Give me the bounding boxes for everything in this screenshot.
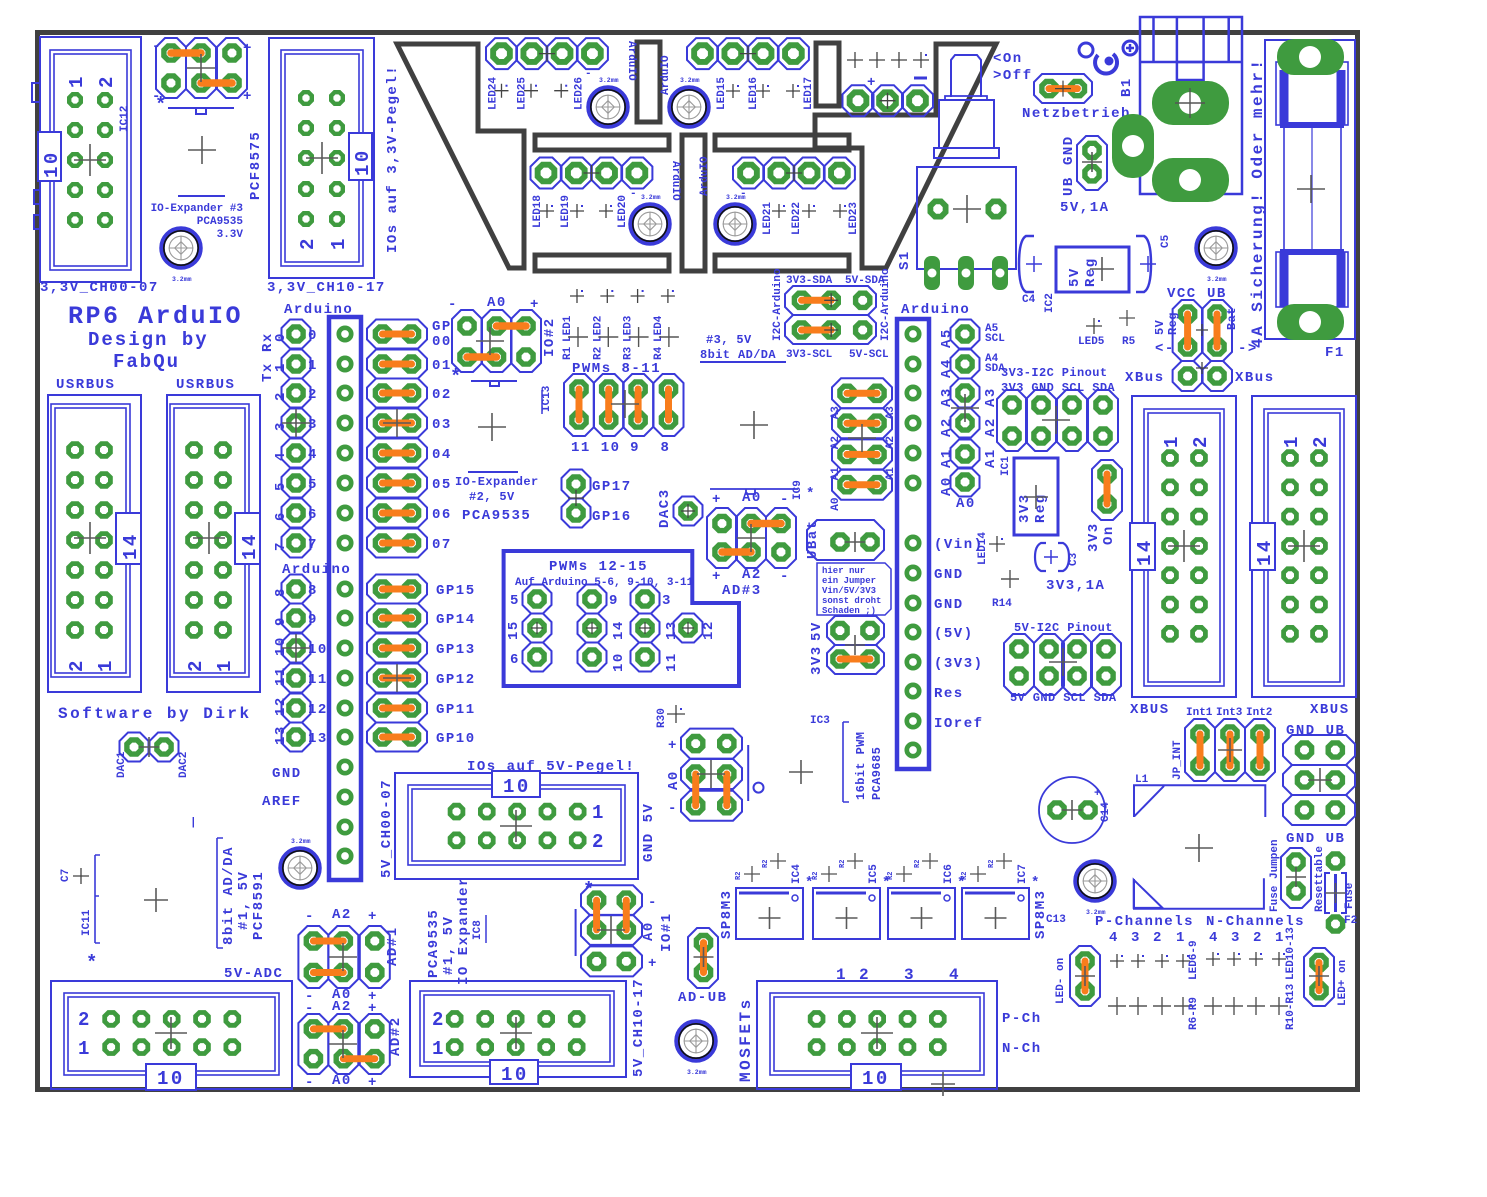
- pad DAC3: [657, 488, 703, 528]
- jumper Netzbetrieb: [1022, 74, 1131, 122]
- svg-text:Int1: Int1: [1186, 707, 1213, 719]
- svg-text:+: +: [243, 89, 253, 105]
- svg-text:3.2mm: 3.2mm: [291, 838, 311, 845]
- svg-text:N-Ch: N-Ch: [1002, 1041, 1042, 1057]
- svg-text:10: 10: [273, 636, 289, 656]
- connector 5V-ADC: [51, 981, 292, 1090]
- svg-text:10: 10: [862, 1068, 890, 1090]
- svg-text:LED1: LED1: [562, 315, 574, 342]
- Arduino shield header left strip: [329, 317, 361, 880]
- svg-text:2: 2: [1253, 930, 1263, 946]
- svg-text:3: 3: [904, 966, 916, 984]
- transistor box IC6: [887, 853, 967, 939]
- milled slot bar4: [715, 255, 849, 271]
- jumper block Arduino A3-A0: [830, 378, 897, 510]
- svg-text:Auf Arduino 5-6, 9-10, 3-11: Auf Arduino 5-6, 9-10, 3-11: [515, 577, 694, 589]
- jumper block I2C-Arduino: [772, 268, 892, 361]
- svg-text:A1: A1: [939, 448, 955, 468]
- svg-text:AD#2: AD#2: [388, 1016, 404, 1056]
- svg-text:#3, 5V: #3, 5V: [706, 333, 752, 347]
- svg-text:5V: 5V: [1153, 319, 1167, 335]
- svg-text:-: -: [648, 895, 658, 911]
- svg-text:4: 4: [308, 447, 318, 463]
- svg-text:R6-R9: R6-R9: [1188, 997, 1200, 1030]
- svg-text:>Off: >Off: [993, 68, 1033, 84]
- jumper JP12 block: [152, 38, 253, 116]
- cross bottom middle: [931, 1072, 955, 1096]
- svg-text:1: 1: [78, 1038, 92, 1060]
- mounting hole bottom middle: [677, 1022, 715, 1076]
- svg-text:IC9: IC9: [792, 480, 804, 500]
- jumpers JP_INT Int1 Int3 Int2: [1172, 707, 1275, 781]
- svg-text:A0: A0: [332, 1073, 352, 1089]
- svg-text:-: -: [630, 188, 637, 200]
- svg-text:4: 4: [1109, 930, 1119, 946]
- svg-text:A2: A2: [332, 907, 352, 923]
- svg-text:10: 10: [308, 642, 328, 658]
- svg-text:14: 14: [611, 620, 627, 640]
- svg-text:GND: GND: [934, 597, 964, 613]
- connector XBUS2: [1250, 396, 1356, 697]
- cross mid left: [478, 413, 506, 441]
- svg-text:5V_CH00-07: 5V_CH00-07: [379, 779, 395, 878]
- svg-text:Int2: Int2: [1246, 707, 1272, 719]
- svg-text:8: 8: [661, 440, 671, 456]
- svg-text:2: 2: [1310, 434, 1332, 448]
- svg-text:5V: 5V: [1067, 267, 1083, 287]
- svg-text:3: 3: [662, 593, 672, 609]
- svg-text:IO#2: IO#2: [542, 317, 558, 357]
- svg-text:5V-SCL: 5V-SCL: [849, 349, 889, 361]
- svg-text:1: 1: [432, 1038, 446, 1060]
- svg-text:R30: R30: [656, 708, 668, 728]
- svg-text:IC4: IC4: [791, 864, 803, 884]
- svg-text:4: 4: [949, 966, 961, 984]
- svg-text:LED22: LED22: [791, 202, 803, 235]
- svg-text:-: -: [305, 909, 315, 925]
- svg-text:A2: A2: [332, 999, 352, 1015]
- svg-text:A1: A1: [983, 448, 999, 468]
- LED pads LED15-17 group: [660, 38, 815, 110]
- svg-text:3.2mm: 3.2mm: [172, 276, 192, 283]
- svg-text:XBus: XBus: [1235, 370, 1275, 386]
- labels Arduino power pins: [934, 537, 984, 732]
- jumper block AD#2: [298, 999, 404, 1091]
- svg-text:1: 1: [1176, 930, 1186, 946]
- header Arduino analog pins A5-A0: [939, 320, 1005, 513]
- svg-text:+: +: [368, 909, 378, 925]
- svg-text:IC3: IC3: [810, 715, 830, 727]
- svg-text:SCL: SCL: [985, 333, 1005, 345]
- svg-text:IC13: IC13: [541, 385, 553, 412]
- jumper block A0-IO#2mid: [666, 729, 764, 821]
- svg-text:LED24: LED24: [487, 77, 499, 110]
- svg-text:LED23: LED23: [848, 202, 860, 235]
- svg-text:SP8M3: SP8M3: [1033, 889, 1049, 939]
- svg-text:*: *: [155, 94, 169, 116]
- svg-text:ArduIO: ArduIO: [699, 156, 711, 196]
- connector 5V_CH10-17: [410, 978, 647, 1086]
- svg-text:6: 6: [308, 507, 318, 523]
- jumper block AD#1: [298, 907, 401, 1005]
- svg-text:Bat: Bat: [1225, 307, 1239, 330]
- jumper 3V3 On: [1086, 460, 1122, 552]
- svg-text:9: 9: [308, 612, 318, 628]
- svg-text:LED2: LED2: [592, 316, 604, 342]
- svg-text:Schaden ;): Schaden ;): [822, 606, 876, 616]
- connector USRBUS2: [167, 395, 261, 692]
- connector USRBUS1: [48, 395, 142, 692]
- svg-text:A0: A0: [742, 490, 762, 506]
- svg-text:GP13: GP13: [436, 642, 476, 658]
- header Arduino digital pins 8-13: [273, 575, 328, 752]
- svg-text:2: 2: [185, 658, 207, 672]
- LED pads LED24-26 group: [486, 38, 637, 110]
- pads DAC1 DAC2: [116, 733, 190, 779]
- svg-text:IO Expander: IO Expander: [456, 876, 472, 985]
- svg-text:PCA9535: PCA9535: [462, 508, 531, 524]
- svg-text:A0: A0: [830, 497, 842, 510]
- svg-text:PCA9535: PCA9535: [426, 909, 442, 978]
- svg-text:<-: <-: [1155, 341, 1175, 357]
- svg-text:-: -: [305, 1075, 315, 1091]
- svg-text:9: 9: [630, 440, 640, 456]
- connector 3,3V_CH00-07: [38, 37, 159, 296]
- svg-text:IC6: IC6: [943, 864, 955, 884]
- svg-text:LED4: LED4: [653, 315, 665, 342]
- svg-text:PCF8591: PCF8591: [251, 871, 267, 940]
- svg-text:9: 9: [273, 616, 289, 626]
- svg-text:R2: R2: [762, 860, 770, 868]
- svg-text:4A Sicherung! Oder mehr!: 4A Sicherung! Oder mehr!: [1249, 58, 1267, 348]
- svg-text:GND 5V: GND 5V: [641, 803, 657, 862]
- svg-text:1: 1: [1161, 434, 1183, 448]
- svg-text:10: 10: [501, 1064, 529, 1086]
- svg-text:LED16: LED16: [748, 77, 760, 110]
- milled slot bar2: [535, 255, 669, 271]
- svg-text:PCA9685: PCA9685: [870, 747, 884, 800]
- svg-text:10: 10: [157, 1068, 185, 1090]
- svg-text:2: 2: [308, 387, 318, 403]
- mounting hole top a: [589, 77, 627, 126]
- transistor box IC4: [735, 853, 815, 939]
- svg-text:GP14: GP14: [436, 612, 476, 628]
- svg-text:1: 1: [66, 74, 88, 88]
- IC2 5V regulator box: [1044, 247, 1129, 313]
- svg-text:3.2mm: 3.2mm: [641, 194, 661, 201]
- svg-text:A4: A4: [939, 358, 955, 378]
- svg-text:IOref: IOref: [934, 716, 984, 732]
- jumper block A0 IO#1: [576, 879, 675, 976]
- board edge notch: [32, 83, 40, 229]
- jumper netz +- pads: [843, 75, 934, 116]
- svg-text:3.2mm: 3.2mm: [687, 1069, 707, 1076]
- svg-text:IC7: IC7: [1017, 864, 1029, 884]
- svg-text:R14: R14: [992, 598, 1012, 610]
- svg-text:7: 7: [273, 541, 289, 551]
- svg-text:LED21: LED21: [762, 202, 774, 235]
- svg-text:B1: B1: [1119, 77, 1135, 97]
- svg-text:DAC2: DAC2: [178, 752, 190, 778]
- svg-text:14: 14: [120, 532, 142, 560]
- milled cutout right wing: [815, 44, 996, 268]
- jumper UBat: [805, 519, 884, 560]
- svg-text:1: 1: [95, 658, 117, 672]
- jumper GP01: [367, 350, 452, 379]
- svg-text:I2C-Arduino: I2C-Arduino: [880, 268, 892, 341]
- svg-text:1: 1: [1275, 930, 1285, 946]
- svg-text:Arduino: Arduino: [901, 302, 970, 318]
- svg-text:Software by Dirk: Software by Dirk: [58, 705, 252, 723]
- jumper GP12: [367, 664, 476, 693]
- svg-text:-: -: [780, 492, 790, 508]
- svg-text:6: 6: [273, 511, 289, 521]
- svg-text:R2: R2: [988, 860, 996, 868]
- pinout 5V-I2C: [1004, 621, 1121, 705]
- svg-text:+: +: [243, 41, 253, 57]
- svg-text:2: 2: [1153, 930, 1163, 946]
- svg-text:13: 13: [273, 725, 289, 745]
- svg-text:LED20: LED20: [617, 195, 629, 228]
- svg-text:10: 10: [41, 150, 63, 178]
- connector MOSFETs: [737, 966, 1042, 1090]
- Arduino shield header right strip: [897, 319, 929, 769]
- svg-text:10: 10: [503, 776, 531, 798]
- svg-text:GP17: GP17: [592, 479, 632, 495]
- svg-text:2: 2: [297, 236, 319, 250]
- svg-text:LED- on: LED- on: [1055, 958, 1067, 1004]
- svg-text:LED+ on: LED+ on: [1337, 960, 1349, 1006]
- svg-text:GP12: GP12: [436, 672, 476, 688]
- svg-text:6: 6: [510, 652, 520, 668]
- svg-text:IC1: IC1: [1000, 456, 1012, 476]
- svg-text:IO#1: IO#1: [659, 912, 675, 952]
- svg-text:Fuse: Fuse: [1344, 882, 1356, 909]
- svg-text:R4: R4: [653, 346, 665, 360]
- mounting hole mid b: [716, 194, 754, 243]
- svg-text:07: 07: [432, 537, 452, 553]
- svg-text:16bit PWM: 16bit PWM: [854, 732, 868, 800]
- svg-text:PWMs 12-15: PWMs 12-15: [549, 559, 648, 575]
- connector XBUS1: [1130, 396, 1236, 697]
- svg-text:R2: R2: [592, 347, 604, 360]
- cross PWM811: [611, 390, 639, 418]
- svg-text:GND UB: GND UB: [1286, 723, 1345, 739]
- pads UB GND power out: [1060, 135, 1110, 216]
- svg-text:LED10-13: LED10-13: [1285, 927, 1297, 980]
- svg-text:+: +: [712, 492, 722, 508]
- svg-text:XBUS: XBUS: [1130, 702, 1170, 718]
- svg-text:GND: GND: [272, 766, 302, 782]
- capacitor C2: [1035, 543, 1080, 571]
- svg-text:GP10: GP10: [436, 731, 476, 747]
- cross between top connectors: [188, 136, 216, 164]
- svg-text:FabQu: FabQu: [113, 351, 180, 373]
- svg-text:R3: R3: [623, 346, 635, 360]
- svg-text:AD-UB: AD-UB: [678, 990, 728, 1006]
- svg-text:3.3V: 3.3V: [217, 229, 244, 241]
- svg-text:1: 1: [836, 966, 848, 984]
- svg-text:(5V): (5V): [934, 626, 974, 642]
- milled cutout left wing: [397, 44, 524, 268]
- svg-text:IC12: IC12: [119, 106, 131, 132]
- svg-text:#1, 5V: #1, 5V: [236, 871, 252, 930]
- milled slot top right: [816, 43, 839, 106]
- svg-text:USRBUS: USRBUS: [56, 377, 115, 393]
- mounting hole bottom left: [281, 838, 319, 887]
- svg-text:2: 2: [273, 391, 289, 401]
- pinout 3V3-I2C: [997, 366, 1118, 451]
- svg-text:5V: 5V: [809, 621, 825, 641]
- capacitor C7: [60, 855, 168, 974]
- svg-text:sonst droht: sonst droht: [822, 596, 881, 606]
- svg-text:SP8M3: SP8M3: [719, 889, 735, 939]
- svg-text:-: -: [668, 801, 678, 817]
- svg-text:*: *: [1031, 875, 1041, 891]
- svg-text:USRBUS: USRBUS: [176, 377, 235, 393]
- svg-text:3.2mm: 3.2mm: [726, 194, 746, 201]
- svg-text:LED17: LED17: [803, 77, 815, 110]
- svg-text:7: 7: [308, 537, 318, 553]
- svg-text:3V3: 3V3: [809, 645, 825, 675]
- LED5 R5: [1086, 318, 1102, 334]
- milled slot bar1: [535, 135, 669, 150]
- svg-text:XBus: XBus: [1125, 370, 1165, 386]
- svg-text:Int3: Int3: [1216, 707, 1243, 719]
- milled slot middle vertical: [682, 135, 705, 271]
- svg-text:AD#3: AD#3: [722, 583, 762, 599]
- LED6-9 crosses: [1110, 940, 1200, 980]
- svg-text:#2, 5V: #2, 5V: [469, 490, 515, 504]
- cross GP03: [383, 409, 411, 437]
- svg-text:*: *: [806, 486, 816, 502]
- LED1-4 resistor crosses: [562, 289, 679, 360]
- jumper GP06: [367, 499, 452, 528]
- svg-text:P-Channels: P-Channels: [1095, 914, 1194, 930]
- jumper LED+ on: [1304, 948, 1349, 1006]
- svg-text:14: 14: [1254, 538, 1276, 566]
- svg-text:3: 3: [308, 417, 318, 433]
- warning text box: [817, 563, 891, 616]
- PWMs 12-15 box: [504, 551, 739, 686]
- svg-text:R2: R2: [735, 872, 743, 880]
- jumper GP13: [367, 634, 476, 663]
- svg-text:-: -: [152, 39, 162, 55]
- svg-text:4: 4: [1209, 930, 1219, 946]
- LED14: [989, 536, 1005, 552]
- svg-text:2: 2: [1190, 434, 1212, 448]
- svg-text:C5: C5: [1160, 234, 1172, 248]
- jumper PWM 11: [564, 374, 594, 456]
- svg-text:ein Jumper: ein Jumper: [822, 576, 876, 586]
- svg-text:F2: F2: [1344, 915, 1357, 927]
- svg-text:3V3 GND SCL SDA: 3V3 GND SCL SDA: [1001, 381, 1115, 395]
- svg-text:3V3-I2C Pinout: 3V3-I2C Pinout: [1001, 366, 1107, 380]
- svg-text:11: 11: [664, 652, 680, 672]
- transistor box IC7: [961, 853, 1041, 939]
- svg-text:AD#1: AD#1: [385, 926, 401, 966]
- svg-text:P-Ch: P-Ch: [1002, 1011, 1042, 1027]
- svg-text:A2: A2: [742, 567, 762, 583]
- svg-text:+: +: [668, 738, 678, 754]
- svg-text:A0: A0: [666, 770, 682, 790]
- svg-text:+: +: [867, 75, 877, 91]
- svg-text:Reg: Reg: [1166, 312, 1180, 335]
- svg-text:5: 5: [308, 477, 318, 493]
- pads GP17 GP16: [562, 470, 632, 528]
- svg-text:Tx: Tx: [260, 362, 276, 382]
- svg-text:hier nur: hier nur: [822, 566, 865, 576]
- svg-text:11: 11: [571, 440, 591, 456]
- svg-text:1: 1: [308, 358, 318, 374]
- svg-text:8bit AD/DA: 8bit AD/DA: [700, 348, 776, 362]
- svg-text:A2: A2: [939, 417, 955, 437]
- connector B1: [1112, 17, 1242, 202]
- svg-text:+: +: [712, 569, 722, 585]
- LED pads LED18-20 group: [531, 158, 682, 229]
- mounting hole top right: [1197, 229, 1235, 283]
- svg-text:10: 10: [352, 148, 374, 176]
- svg-text:12: 12: [701, 620, 717, 640]
- svg-text:3V3,1A: 3V3,1A: [1046, 578, 1105, 594]
- svg-text:5V,1A: 5V,1A: [1060, 200, 1110, 216]
- svg-text:F1: F1: [1325, 345, 1345, 361]
- svg-text:3,3V_CH10-17: 3,3V_CH10-17: [267, 280, 386, 296]
- mounting hole bottom right: [1076, 862, 1114, 916]
- svg-text:A5: A5: [939, 328, 955, 348]
- svg-text:1: 1: [328, 236, 350, 250]
- svg-text:3: 3: [1231, 930, 1241, 946]
- svg-text:+: +: [1094, 788, 1101, 800]
- svg-text:AREF: AREF: [262, 794, 302, 810]
- jumper AD-UB: [678, 928, 728, 1006]
- svg-text:1: 1: [592, 802, 606, 824]
- svg-text:R2: R2: [961, 872, 969, 880]
- svg-text:R2: R2: [914, 860, 922, 868]
- svg-text:PCF8575: PCF8575: [248, 131, 264, 200]
- jumper PWM 8: [654, 374, 684, 456]
- capacitor C4: [1019, 236, 1042, 306]
- svg-text:GND: GND: [1061, 135, 1077, 165]
- svg-text:LED26: LED26: [574, 77, 586, 110]
- svg-text:S1: S1: [897, 250, 913, 270]
- svg-text:+: +: [648, 956, 658, 972]
- svg-text:2: 2: [78, 1009, 92, 1031]
- svg-text:2: 2: [432, 1009, 446, 1031]
- inductor L1: [1134, 774, 1266, 909]
- svg-text:R2: R2: [839, 860, 847, 868]
- svg-text:MOSFETs: MOSFETs: [737, 997, 755, 1082]
- svg-text:ArduIO: ArduIO: [625, 41, 637, 81]
- svg-text:0: 0: [308, 328, 318, 344]
- power switch icon: [1079, 41, 1137, 74]
- svg-text:1: 1: [1281, 434, 1303, 448]
- svg-text:-: -: [780, 569, 790, 585]
- svg-text:03: 03: [432, 417, 452, 433]
- transistor box IC5: [812, 853, 892, 939]
- svg-text:C4: C4: [1022, 294, 1036, 306]
- resistor R14: [1001, 570, 1019, 588]
- svg-text:01: 01: [432, 358, 452, 374]
- svg-text:3,3V_CH00-07: 3,3V_CH00-07: [40, 280, 159, 296]
- svg-text:3.2mm: 3.2mm: [599, 77, 619, 84]
- svg-text:A0: A0: [487, 295, 507, 311]
- svg-text:IC5: IC5: [868, 864, 880, 884]
- svg-text:15: 15: [506, 620, 522, 640]
- svg-text:R5: R5: [1122, 336, 1136, 348]
- IC1 3V3 regulator box: [1014, 458, 1058, 535]
- svg-text:8bit AD/DA: 8bit AD/DA: [221, 846, 237, 945]
